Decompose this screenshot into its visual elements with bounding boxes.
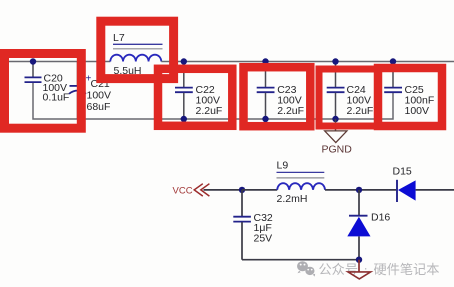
svg-text:100V: 100V <box>87 90 112 102</box>
wire top rail right segment <box>161 61 454 63</box>
wire L9 to D15 <box>325 189 396 191</box>
highlight box L7 <box>101 21 174 78</box>
junction node C24 bottom <box>332 116 338 122</box>
capacitor C20 <box>25 62 70 104</box>
inductor L9 <box>277 160 326 205</box>
junction node C23 bottom <box>262 116 268 122</box>
capacitor C22 <box>175 62 222 120</box>
wire top rail left segment <box>9 61 110 63</box>
wire bottom return <box>242 259 359 261</box>
svg-text:2.2mH: 2.2mH <box>277 193 308 205</box>
highlight box C24 <box>319 69 378 126</box>
svg-text:2.2uF: 2.2uF <box>196 105 223 117</box>
power port hidden ground under D16 <box>348 260 371 279</box>
highlight box C23 <box>244 67 311 126</box>
junction node D16 top <box>356 187 362 193</box>
junction node C25 top <box>390 58 396 64</box>
junction node C23 top <box>262 58 268 64</box>
svg-text:L7: L7 <box>113 32 125 44</box>
power port PGND <box>322 119 353 155</box>
capacitor C23 <box>257 62 304 120</box>
wire bottom rail of filter section <box>33 83 393 119</box>
inductor L7 <box>110 32 162 77</box>
highlight box C25 <box>378 68 442 126</box>
capacitor C32 <box>233 190 273 260</box>
svg-text:硬件笔记本: 硬件笔记本 <box>374 262 440 277</box>
svg-text:2.2uF: 2.2uF <box>277 105 304 117</box>
svg-text:0.1uF: 0.1uF <box>43 92 70 104</box>
wire D15 to edge <box>416 189 454 191</box>
svg-text:100V: 100V <box>405 105 430 117</box>
capacitor C25 <box>384 62 434 117</box>
junction node C32 top <box>239 187 245 193</box>
capacitor C21 (polarized) <box>69 62 111 120</box>
svg-text:PGND: PGND <box>322 143 353 155</box>
svg-text:VCC: VCC <box>173 185 193 196</box>
junction node C20 top <box>30 58 36 64</box>
svg-text:D16: D16 <box>371 212 390 224</box>
diode D16 <box>347 190 390 260</box>
watermark icon <box>297 261 315 276</box>
svg-text:D15: D15 <box>393 165 412 177</box>
diode D15 <box>393 165 416 202</box>
capacitor C24 <box>327 62 374 120</box>
highlight box C22 <box>158 69 232 126</box>
junction node bottom <box>356 257 362 263</box>
svg-text:25V: 25V <box>254 233 273 245</box>
watermark text <box>319 261 440 277</box>
junction node C24 top <box>332 58 338 64</box>
power port VCC <box>173 184 210 197</box>
wire node to L9 <box>242 189 277 191</box>
highlight box C20 <box>5 54 82 129</box>
svg-text:L9: L9 <box>277 160 289 172</box>
junction node C22 bottom <box>181 116 187 122</box>
svg-text:68uF: 68uF <box>87 101 111 113</box>
wire VCC to node <box>204 189 243 191</box>
svg-text:2.2uF: 2.2uF <box>347 105 374 117</box>
junction node C22 top <box>181 58 187 64</box>
